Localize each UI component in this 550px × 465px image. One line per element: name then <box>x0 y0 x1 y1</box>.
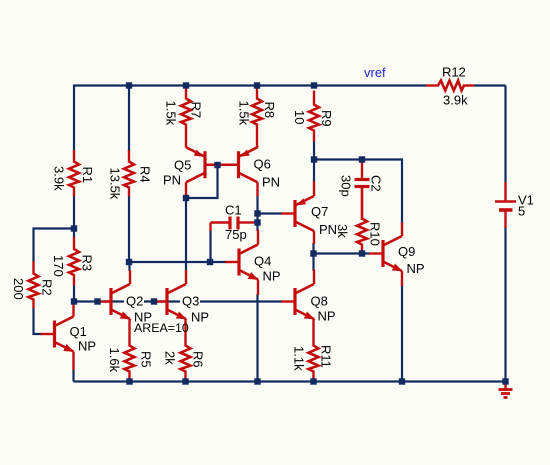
svg-text:PN: PN <box>319 222 337 237</box>
voltage source V1 5V battery <box>504 182 506 201</box>
wire R1 bottom to node A junction <box>73 196 75 238</box>
transistor Q1 NPN <box>41 333 55 335</box>
wire Q8 emitter/R11 bottom to rail <box>312 378 314 382</box>
svg-text:30p: 30p <box>339 175 354 197</box>
transistor Q4 NPN <box>225 261 239 263</box>
node junction rail/Q4 emitter <box>254 378 260 384</box>
resistor R12 3.9k <box>426 84 439 86</box>
svg-text:1.1k: 1.1k <box>292 346 307 371</box>
svg-text:Q7: Q7 <box>311 204 328 219</box>
ground symbol <box>504 384 506 389</box>
svg-text:NP: NP <box>78 339 96 354</box>
wire right branch V1 top <box>504 86 506 184</box>
node junction rail/R9 vref <box>311 82 317 88</box>
node junction R1-R3-R2 node A <box>71 225 77 231</box>
wire R9 bottom to node vb <box>313 141 315 160</box>
wire C1 right lead to Q6 collector line <box>253 221 258 223</box>
node junction rail/R4 <box>126 82 132 88</box>
svg-text:NP: NP <box>318 309 336 324</box>
wire top power rail <box>74 84 426 86</box>
transistor Q3 NPN <box>153 300 167 302</box>
svg-text:C1: C1 <box>225 203 242 218</box>
node junction R10 bottom / Q9 base <box>359 250 365 256</box>
svg-text:R7: R7 <box>189 102 204 119</box>
svg-text:3k: 3k <box>335 224 350 238</box>
resistor R8 1.5k <box>256 89 258 100</box>
svg-text:170: 170 <box>51 255 66 277</box>
wire C1 left leg down to y=262 bus <box>209 230 211 262</box>
node junction R3/Q1 collector <box>71 298 77 304</box>
svg-text:200: 200 <box>11 278 26 300</box>
node junction rail/Q9 emitter <box>399 378 405 384</box>
resistor R4 13.5k <box>128 150 130 163</box>
svg-text:Q2: Q2 <box>126 294 143 309</box>
wire Q7 base from node <box>258 212 283 214</box>
wire Q4 emitter down to bottom rail <box>256 294 258 382</box>
svg-text:PN: PN <box>163 173 181 188</box>
transistor Q6 PNP <box>225 164 239 166</box>
svg-text:R5: R5 <box>139 351 154 368</box>
wire V1 bottom to ground rail <box>504 227 506 382</box>
node junction Q7-Q8 mid node <box>310 250 316 256</box>
node junction rail/R8 <box>254 82 260 88</box>
resistor R1 3.9k <box>73 150 75 163</box>
resistor R11 1.1k <box>312 319 314 347</box>
node junction Q5 collector tie <box>183 195 189 201</box>
svg-text:2k: 2k <box>163 351 178 365</box>
transistor Q5 PNP (mirrored) <box>205 164 219 166</box>
svg-text:R8: R8 <box>262 102 277 119</box>
transistor Q8 NPN <box>281 300 295 302</box>
svg-text:PN: PN <box>262 175 280 190</box>
label Q3 <box>180 295 200 308</box>
node junction rail/R6 <box>182 378 188 384</box>
wire R4 bottom to y=262 node <box>128 196 130 262</box>
svg-text:NP: NP <box>263 269 281 284</box>
node junction node vb R9 <box>311 156 317 162</box>
svg-text:Q6: Q6 <box>254 157 271 172</box>
node junction R4/Q2 collector <box>126 259 132 265</box>
svg-text:R2: R2 <box>40 279 55 296</box>
resistor R7 1.5k <box>185 89 187 100</box>
svg-text:3.9k: 3.9k <box>52 166 67 191</box>
wire Q9 emitter down to bottom rail <box>401 285 403 382</box>
svg-text:NP: NP <box>407 261 425 276</box>
svg-text:R9: R9 <box>319 110 334 127</box>
node junction C1 left tap <box>207 259 213 265</box>
capacitor C2 30p <box>361 161 363 178</box>
svg-text:C2: C2 <box>369 175 384 192</box>
wire node A left loop to R2 top <box>34 229 75 263</box>
wire Q7 emitter stub from node vb <box>313 160 315 183</box>
resistor R6 2k <box>184 319 186 347</box>
node junction C2 top tap <box>359 156 365 162</box>
wire Q1 emitter to bottom rail <box>72 369 74 382</box>
wire bottom ground rail <box>74 380 506 382</box>
svg-text:R1: R1 <box>80 167 95 184</box>
node junction Q7 base tap <box>254 210 260 216</box>
node junction base bus seg2 <box>151 298 157 304</box>
svg-text:3.9k: 3.9k <box>443 93 468 108</box>
node junction rail/ground <box>502 378 508 384</box>
svg-text:1.5k: 1.5k <box>164 101 179 126</box>
svg-text:13.5k: 13.5k <box>108 168 123 200</box>
svg-text:Q8: Q8 <box>311 294 328 309</box>
wire left branch down to R1 <box>73 85 75 152</box>
wire Q5 base-collector tie <box>186 165 218 198</box>
wire Q2 collector stub <box>128 262 130 271</box>
node junction rail/R11 <box>310 378 316 384</box>
wire y=253 link (Q7/Q8 collectors to R10, Q9 base) <box>314 252 370 254</box>
svg-text:R3: R3 <box>80 255 95 272</box>
wire Q5 collector to Q3 collector (x=186) <box>185 196 187 271</box>
transistor Q7 PNP <box>281 212 295 214</box>
svg-text:R12: R12 <box>442 65 466 80</box>
svg-text:10: 10 <box>292 110 307 124</box>
wire base bus y=301 (Q1 collector, Q2, Q3, Q8 bases) <box>74 300 282 302</box>
svg-text:Q1: Q1 <box>70 324 87 339</box>
transistor Q2 NPN AREA=10 <box>97 300 111 302</box>
wire node vb to Q9 collector branch <box>314 160 402 225</box>
wire Q6 collector down to Q4 collector (x=257) <box>256 195 258 231</box>
svg-text:R11: R11 <box>319 345 334 368</box>
svg-text:1.6k: 1.6k <box>107 348 122 373</box>
node junction rail/R5 <box>126 378 132 384</box>
resistor R10 3k <box>361 188 363 220</box>
wire R3 bottom to Q1/Q2 base node <box>73 285 75 302</box>
svg-text:vref: vref <box>364 65 386 80</box>
label Q2 <box>124 295 144 308</box>
resistor R2 200 <box>32 261 34 275</box>
svg-text:Q5: Q5 <box>174 158 191 173</box>
capacitor C1 75p <box>211 221 229 223</box>
svg-text:NP: NP <box>191 310 209 325</box>
node junction C1 right tap <box>254 219 260 225</box>
transistor Q9 NPN <box>369 252 383 254</box>
svg-text:R10: R10 <box>368 222 383 246</box>
node junction Q5-Q6 base tie <box>214 162 220 168</box>
wire Q5-Q6 base link <box>205 164 239 166</box>
node junction base bus seg <box>94 298 100 304</box>
svg-text:Q9: Q9 <box>398 244 415 259</box>
svg-text:75p: 75p <box>225 227 247 242</box>
wire R2 bottom to Q1 base <box>34 308 43 334</box>
wire y=262 bus (R4, Q2 collector, C1, Q4 base) <box>129 261 226 263</box>
svg-text:AREA=10: AREA=10 <box>134 321 189 335</box>
resistor R5 1.6k <box>128 319 130 347</box>
resistor R9 10 <box>313 91 315 106</box>
node junction rail/R7 <box>183 82 189 88</box>
svg-text:R6: R6 <box>191 351 206 368</box>
svg-text:R4: R4 <box>138 166 153 183</box>
wire rail drop to R4 <box>128 85 130 152</box>
resistor R3 170 <box>73 237 75 250</box>
svg-text:Q4: Q4 <box>254 254 271 269</box>
wire Q7 collector to Q8 collector (x=314) <box>312 243 314 271</box>
svg-text:5: 5 <box>518 204 525 219</box>
svg-text:Q3: Q3 <box>182 294 199 309</box>
svg-text:1.5k: 1.5k <box>237 101 252 126</box>
